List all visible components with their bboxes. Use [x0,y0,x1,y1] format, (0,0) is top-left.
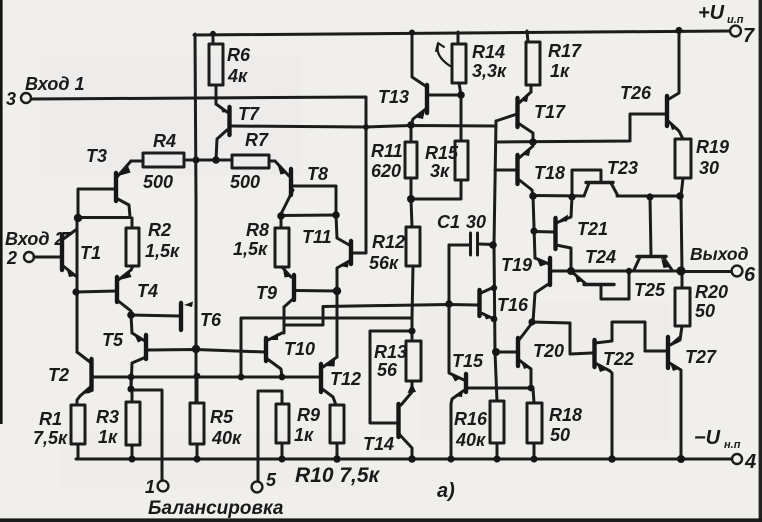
svg-text:Т13: Т13 [378,87,409,107]
svg-text:R9: R9 [297,405,320,425]
svg-text:1к: 1к [98,427,118,447]
svg-text:Балансировка: Балансировка [148,498,284,519]
svg-text:Т24: Т24 [585,247,616,267]
svg-text:5: 5 [266,470,277,490]
svg-text:7,5к: 7,5к [33,428,68,448]
svg-text:Вход 2: Вход 2 [5,229,64,249]
svg-text:Т14: Т14 [363,434,394,454]
svg-text:R8: R8 [246,220,269,240]
svg-text:Т22: Т22 [603,349,634,369]
svg-text:Т17: Т17 [534,102,566,122]
svg-text:620: 620 [371,161,401,181]
svg-text:500: 500 [143,172,173,192]
svg-text:R3: R3 [96,407,119,427]
svg-text:Т12: Т12 [330,369,361,389]
svg-text:Т9: Т9 [256,283,277,303]
svg-text:R10 7,5к: R10 7,5к [295,464,381,487]
svg-text:R6: R6 [227,45,251,65]
svg-text:1к: 1к [550,61,570,81]
svg-text:С1: С1 [437,212,460,232]
svg-text:Т20: Т20 [533,341,564,361]
svg-text:R12: R12 [372,232,405,252]
svg-text:30: 30 [699,158,719,178]
svg-text:Т15: Т15 [452,351,484,371]
svg-text:Т4: Т4 [137,281,158,301]
svg-text:Т7: Т7 [238,104,260,124]
svg-text:30: 30 [466,212,486,232]
svg-text:−U: −U [694,427,721,449]
svg-text:R15: R15 [425,143,459,163]
svg-text:3,3к: 3,3к [472,61,507,81]
svg-text:Т25: Т25 [634,280,666,300]
svg-text:4к: 4к [227,66,248,86]
svg-text:R20: R20 [695,282,728,302]
svg-text:Т1: Т1 [80,243,101,263]
svg-text:3к: 3к [430,161,450,181]
svg-text:1,5к: 1,5к [145,241,180,261]
svg-text:50: 50 [550,425,570,445]
svg-text:Т11: Т11 [302,227,332,247]
svg-text:Т19: Т19 [501,255,532,275]
svg-text:Т16: Т16 [497,295,529,315]
svg-text:R1: R1 [39,409,62,429]
svg-text:Т21: Т21 [577,219,608,239]
svg-text:R17: R17 [548,41,582,61]
svg-text:3: 3 [6,89,16,109]
svg-text:R7: R7 [245,130,269,150]
svg-text:56: 56 [377,360,398,380]
svg-text:1к: 1к [294,425,314,445]
svg-text:R19: R19 [696,137,729,157]
svg-text:Т2: Т2 [48,365,69,385]
svg-text:R13: R13 [374,342,407,362]
svg-text:R18: R18 [549,405,582,425]
svg-text:Т5: Т5 [102,330,124,350]
svg-text:Т18: Т18 [534,163,565,183]
svg-text:1: 1 [145,477,155,497]
svg-text:1,5к: 1,5к [233,239,268,259]
svg-text:40к: 40к [455,430,486,450]
svg-text:Выход: Выход [690,244,749,264]
svg-text:R2: R2 [148,220,171,240]
svg-text:+U: +U [698,2,725,24]
svg-text:Т8: Т8 [307,164,328,184]
svg-text:56к: 56к [369,253,399,273]
svg-text:Вход 1: Вход 1 [25,74,84,94]
svg-text:500: 500 [230,172,260,192]
svg-text:6: 6 [744,264,756,286]
svg-text:Т27: Т27 [685,347,717,367]
svg-text:Т23: Т23 [607,158,638,178]
svg-text:R4: R4 [153,131,176,151]
svg-text:40к: 40к [211,428,242,448]
svg-text:R5: R5 [210,407,234,427]
svg-text:R16: R16 [454,409,488,429]
svg-text:Т10: Т10 [284,339,315,359]
svg-text:7: 7 [743,25,755,47]
svg-text:и.п: и.п [727,14,744,26]
svg-text:н.п: н.п [724,439,741,451]
svg-text:Т3: Т3 [86,146,107,166]
svg-text:R11: R11 [371,141,403,161]
svg-text:Т26: Т26 [620,83,652,103]
svg-text:50: 50 [695,301,715,321]
svg-text:2: 2 [6,248,17,268]
svg-text:R14: R14 [472,42,505,62]
svg-text:4: 4 [744,451,756,473]
svg-text:а): а) [437,480,455,502]
svg-text:Т6: Т6 [200,310,222,330]
